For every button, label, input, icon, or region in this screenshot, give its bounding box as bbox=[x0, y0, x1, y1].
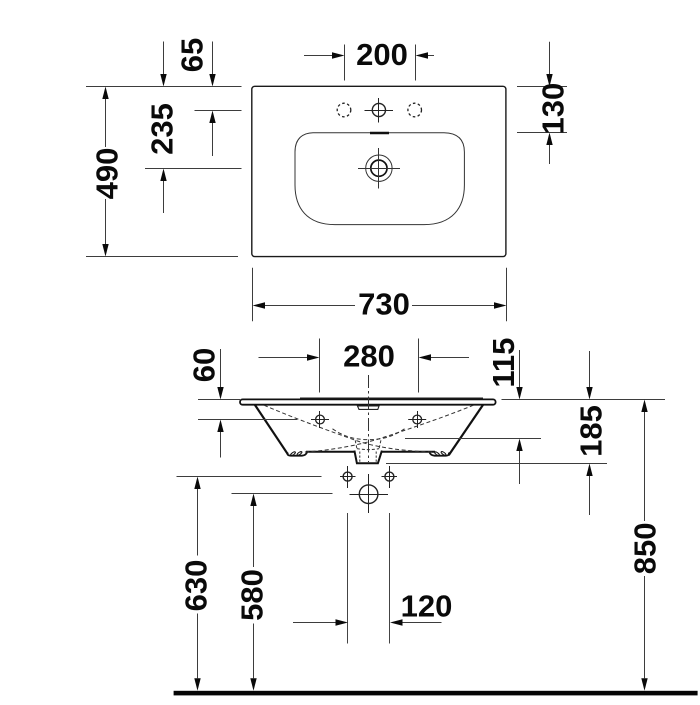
front view: left foot toes bbox=[290, 451, 302, 456]
top view: drain crosshair bbox=[358, 148, 400, 189]
front view: hidden basin bottom dish (dashed) bbox=[333, 429, 405, 440]
top view: basin inner outline bbox=[295, 133, 464, 225]
top view: overflow slot mark bbox=[370, 132, 389, 135]
top view: drain inner circle bbox=[371, 160, 387, 176]
dimension 490 (left side of top view) bbox=[86, 87, 242, 257]
svg-text:185: 185 bbox=[573, 405, 608, 457]
dimension 130 (right, rear edge to basin) bbox=[517, 42, 567, 164]
svg-text:120: 120 bbox=[401, 589, 453, 624]
reference line: anchor hole level (630 top) bbox=[177, 476, 322, 478]
svg-text:630: 630 bbox=[178, 560, 213, 612]
front view: hidden drain funnel (dashed) bbox=[355, 440, 381, 449]
dimension 185 (rim to tailpiece bottom) bbox=[586, 351, 592, 515]
dimension 115 (rim to basin bottom edge) bbox=[516, 350, 522, 484]
front view: right outer wall (slant) bbox=[449, 405, 483, 455]
dimension 850 (floor to rim) bbox=[641, 400, 647, 691]
reference line: rim top level right bbox=[502, 399, 666, 401]
dimension 60 (rim to fixing holes) bbox=[217, 349, 223, 458]
svg-text:200: 200 bbox=[356, 37, 408, 72]
front view: rear rim edge line bbox=[300, 397, 483, 399]
front view: drain pipe circle with crosshair bbox=[350, 474, 389, 513]
reference line: rim top level left (60 top) bbox=[198, 399, 240, 401]
front view: ceramic rim slab bbox=[240, 399, 496, 404]
svg-text:580: 580 bbox=[234, 569, 269, 621]
svg-text:280: 280 bbox=[343, 339, 395, 374]
front view: right anchor axis line (long) bbox=[389, 513, 391, 644]
dimension 580 (floor to drain pipe) bbox=[250, 494, 256, 691]
dimension 730 (bottom of top view, overall width) bbox=[253, 268, 507, 322]
reference line: fixing hole level (60 bottom) bbox=[198, 419, 297, 421]
front view: right foot bbox=[429, 452, 449, 456]
svg-text:60: 60 bbox=[186, 348, 221, 382]
front view: drain tailpiece bbox=[354, 451, 382, 464]
front view: right anchor hole with crosshair bbox=[382, 466, 398, 488]
front view: tailpiece hidden bores (dashed) bbox=[360, 452, 376, 463]
dimension 120 (anchor hole spacing vertical lines) bbox=[293, 619, 442, 625]
front view: hidden bowl curve left-to-right (dashed) bbox=[264, 405, 437, 452]
front view: overflow slot bbox=[358, 406, 380, 409]
front view: left anchor hole with crosshair bbox=[340, 466, 356, 488]
front view: left fixing hole bbox=[311, 411, 329, 428]
top view: right optional faucet hole (dashed) bbox=[408, 103, 422, 117]
top view: left optional faucet hole (dashed) bbox=[337, 103, 351, 117]
reference line: drain pipe level (580 top) bbox=[232, 493, 333, 495]
top view: outer rim rectangle bbox=[252, 86, 506, 256]
dimension 200 (top center, tap hole spacing) bbox=[304, 45, 434, 81]
svg-text:850: 850 bbox=[628, 523, 663, 575]
top view: center faucet hole with crosshair bbox=[365, 98, 394, 123]
front view: left anchor axis line (long) bbox=[347, 513, 349, 644]
dimension 280 (anchor hole spacing) bbox=[259, 339, 470, 393]
dimension 630 (floor to anchor holes) bbox=[194, 477, 200, 691]
top view: drain outer circle bbox=[366, 155, 392, 181]
svg-text:65: 65 bbox=[174, 38, 209, 72]
svg-text:235: 235 bbox=[144, 103, 179, 155]
front view: left foot bbox=[288, 452, 308, 456]
front view: bottom line bbox=[306, 451, 435, 453]
dimension 235 (left, rear edge to drain) bbox=[145, 111, 242, 214]
front view: left outer wall (slant) bbox=[255, 405, 288, 454]
dimension 65 (top left, rear edge to tap holes) bbox=[160, 42, 215, 87]
front view: right fixing hole bbox=[408, 411, 426, 428]
front view: right foot toes bbox=[434, 451, 446, 456]
front view: vertical centerline (dash-dot) bbox=[368, 375, 370, 462]
svg-text:730: 730 bbox=[358, 287, 410, 322]
svg-text:130: 130 bbox=[535, 83, 570, 135]
front view: hidden bowl curve right-to-left (dashed) bbox=[301, 405, 474, 452]
svg-text:490: 490 bbox=[89, 148, 124, 200]
reference line: tailpiece bottom level (185 bottom) bbox=[386, 463, 607, 465]
reference line: basin outer bottom level (115 bottom) bbox=[405, 438, 541, 440]
floor line bbox=[174, 691, 698, 696]
svg-text:115: 115 bbox=[486, 338, 521, 388]
